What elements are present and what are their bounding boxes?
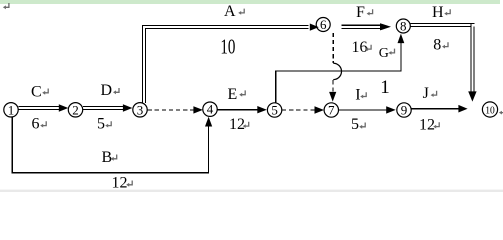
svg-text:5: 5	[351, 116, 359, 133]
activity E 4->5	[217, 109, 259, 111]
svg-text:12: 12	[419, 117, 435, 134]
svg-text:E: E	[228, 86, 238, 103]
svg-text:9: 9	[401, 103, 408, 118]
svg-text:2: 2	[72, 102, 79, 117]
svg-text:A: A	[224, 3, 236, 20]
arrowhead: dummy into node 4	[193, 106, 203, 113]
arrowhead: dummy into node 7 top	[329, 92, 336, 102]
return mark after 8	[442, 42, 448, 48]
return mark after A	[238, 9, 244, 15]
svg-text:B: B	[102, 149, 113, 166]
return mark after F	[367, 9, 373, 15]
return mark after 5	[105, 121, 111, 127]
dummy arrow 5->7 (dashed)	[282, 109, 317, 111]
node 8	[396, 19, 410, 34]
arrowhead: I into node 9	[386, 106, 396, 113]
node 4	[203, 102, 217, 117]
svg-text:10: 10	[220, 35, 235, 59]
node 9	[397, 103, 411, 118]
return mark after 6	[40, 121, 46, 127]
node 6	[316, 17, 330, 32]
dashed continuation to node 7	[332, 80, 334, 94]
return mark after C	[42, 89, 48, 95]
wire: activity B horizontal bottom	[12, 172, 210, 174]
return mark after E	[239, 90, 245, 96]
arrowhead: E into node 5	[257, 106, 267, 113]
svg-text:G: G	[379, 46, 389, 61]
svg-text:1: 1	[380, 77, 390, 98]
svg-text:4: 4	[207, 102, 214, 117]
return mark after 12	[433, 122, 439, 128]
activity H double line: right from node 8 then down	[410, 24, 474, 93]
return mark after D	[113, 88, 119, 94]
svg-text:I: I	[355, 87, 360, 104]
svg-text:7: 7	[328, 103, 335, 118]
return mark after J	[431, 91, 437, 97]
arrowhead: C into node 2	[59, 104, 69, 112]
arrowhead: B into node 4	[205, 117, 212, 127]
arrowhead: dummy into node 7	[315, 106, 325, 113]
return mark after I	[360, 92, 366, 98]
activity C double line 1->2	[18, 106, 61, 109]
dummy arrow 3->4 (dashed)	[148, 109, 197, 111]
wire: activity B riser up to node 4	[208, 125, 210, 174]
svg-text:3: 3	[137, 102, 144, 117]
activity D double line 2->3	[83, 106, 125, 109]
svg-text:C: C	[31, 83, 42, 100]
svg-text:16: 16	[352, 39, 368, 56]
return mark after 16	[365, 45, 371, 51]
node 2	[68, 102, 82, 117]
svg-text:6: 6	[32, 116, 40, 133]
return mark after B	[111, 155, 117, 161]
arrowhead: D into node 3	[123, 104, 132, 112]
activity J 9->10	[412, 108, 461, 110]
return mark after G	[389, 49, 395, 55]
arrowhead: J	[458, 105, 467, 113]
svg-text:J: J	[423, 85, 429, 102]
node 3	[133, 102, 147, 117]
return mark after 12	[126, 181, 132, 187]
svg-text:10: 10	[485, 105, 495, 117]
svg-text:F: F	[356, 4, 365, 21]
svg-text:5: 5	[271, 103, 278, 118]
return mark after 5	[359, 123, 365, 129]
arrowhead: G into node 8	[398, 34, 405, 44]
node 1	[4, 102, 18, 117]
return mark top-left	[3, 3, 9, 9]
svg-text:6: 6	[320, 17, 327, 32]
svg-text:8: 8	[433, 37, 441, 54]
svg-text:12: 12	[112, 175, 128, 192]
svg-text:12: 12	[229, 116, 245, 133]
return mark after node 10 (clipped at edge)	[499, 108, 503, 114]
arrowhead: A into node 6	[310, 24, 319, 31]
svg-text:D: D	[101, 82, 113, 99]
svg-text:1: 1	[8, 102, 15, 117]
return mark after 12	[243, 122, 249, 128]
svg-text:5: 5	[97, 116, 105, 133]
return mark after H	[444, 9, 450, 15]
node 5	[267, 103, 281, 118]
arrowhead: F into node 8	[380, 23, 391, 30]
node 10	[482, 102, 497, 117]
svg-text:H: H	[432, 4, 444, 21]
toolbar band (green)	[0, 0, 500, 4]
wire: activity B vertical from node 1	[11, 117, 13, 173]
activity G elbow: node 5 up, right, up into node 8	[275, 42, 401, 103]
activity I 7->9	[339, 109, 389, 111]
hop arc over wire	[333, 63, 341, 79]
arrowhead: H downward	[468, 91, 476, 101]
activity A double line: up from node 3 then right to node 6	[142, 25, 309, 103]
svg-text:8: 8	[400, 19, 407, 34]
dummy arrow 6->7 (dashed with hop over G wire)	[332, 33, 334, 63]
node 7	[324, 103, 338, 118]
bottom gray strip	[0, 190, 503, 192]
activity F double line 6->8	[342, 25, 382, 28]
